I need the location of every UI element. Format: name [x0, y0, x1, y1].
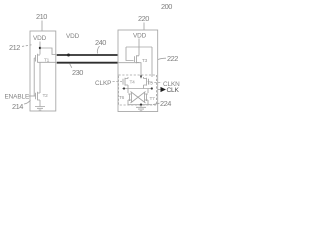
leader for 230	[70, 64, 72, 68]
leader tick for 210	[41, 21, 43, 32]
latch bottom wire	[128, 104, 152, 106]
power line 240	[57, 54, 118, 56]
svg-text:220: 220	[138, 14, 149, 23]
svg-text:200: 200	[161, 2, 172, 11]
wire branch to line 240	[40, 48, 56, 55]
leader tick for 220	[143, 23, 145, 31]
leader for 224	[153, 103, 160, 104]
node dot at VDD branch	[39, 47, 41, 49]
junction dot on line 240	[67, 54, 70, 57]
wire T1 drain to line 230 and down to T2	[40, 62, 56, 92]
clock wire inside block 220	[118, 63, 141, 76]
svg-text:240: 240	[95, 38, 106, 47]
node dot bottom	[140, 104, 142, 106]
clock line 230	[57, 62, 118, 64]
svg-text:VDD: VDD	[133, 33, 147, 40]
arrowhead into latch	[140, 76, 142, 79]
svg-text:ENABLE: ENABLE	[5, 94, 30, 101]
dashed box 222	[119, 75, 157, 105]
ground block 220	[136, 107, 146, 111]
wire VDD stem block 220	[138, 39, 140, 56]
transistor T6	[128, 89, 132, 105]
ENABLE wire	[29, 95, 36, 97]
svg-text:210: 210	[36, 12, 47, 21]
svg-text:214: 214	[12, 102, 23, 111]
svg-text:222: 222	[167, 54, 178, 63]
CLKN leader dashes	[151, 82, 163, 84]
svg-text:T4: T4	[130, 80, 136, 86]
svg-text:224: 224	[160, 99, 171, 108]
latch top wire	[122, 88, 152, 90]
transistor T3	[135, 55, 140, 63]
svg-text:CLK: CLK	[167, 87, 180, 94]
block 210 outline	[30, 31, 56, 111]
leader for 214	[24, 100, 31, 104]
svg-text:VDD: VDD	[66, 33, 80, 40]
wire right drop to latch	[151, 47, 153, 77]
wire T2 source to ground	[39, 92, 41, 107]
transistor T5	[144, 77, 149, 89]
ground block 210	[35, 107, 45, 111]
wire VDD to T1	[39, 42, 41, 55]
gate bus wire	[34, 58, 35, 96]
CLK output stub	[158, 89, 161, 91]
wire left drop to T3 gate	[126, 47, 134, 61]
svg-text:T7: T7	[150, 96, 156, 102]
svg-text:212: 212	[9, 43, 20, 52]
svg-text:230: 230	[72, 68, 83, 77]
svg-text:VDD: VDD	[33, 35, 47, 42]
wire to ground block 220	[140, 105, 142, 107]
transistor T2	[36, 92, 41, 101]
CLKP leader dashes	[113, 81, 123, 83]
block 220 outline	[118, 30, 158, 112]
cross coupling wires	[131, 92, 146, 104]
node dot right	[151, 87, 153, 89]
transistor T7	[145, 89, 149, 105]
VDD rail block 220	[126, 46, 152, 48]
svg-text:T2: T2	[43, 93, 49, 99]
svg-text:T6: T6	[119, 95, 125, 101]
CLK output arrow	[161, 87, 167, 92]
leader for 222	[158, 58, 166, 59]
node dot left	[123, 87, 125, 89]
svg-text:T3: T3	[142, 58, 148, 64]
svg-text:CLKP: CLKP	[95, 80, 111, 87]
transistor T4	[123, 77, 128, 89]
svg-text:T5: T5	[148, 81, 154, 87]
leader for 212	[22, 45, 32, 47]
transistor T1	[36, 54, 41, 63]
leader for 240	[97, 46, 99, 54]
